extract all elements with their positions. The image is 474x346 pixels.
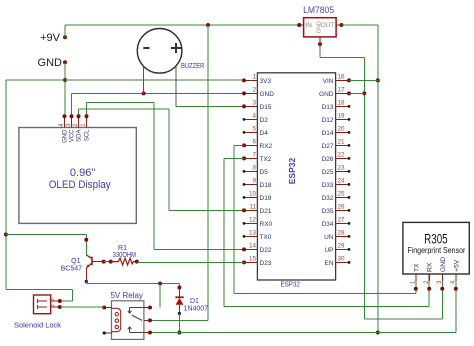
relay pin NC right top (144, 306, 152, 310)
ESP32 pin 18 D13 (322, 100, 351, 111)
wire 5V to R305 (455, 289, 457, 333)
R305 body (403, 222, 469, 274)
solenoid pin numbers (50, 298, 56, 307)
svg-text:+9V: +9V (40, 32, 61, 44)
wire SCL drop (153, 103, 155, 250)
ESP32 pin 2 GND (242, 87, 274, 98)
svg-text:12: 12 (249, 217, 257, 224)
svg-text:BUZZER: BUZZER (181, 63, 204, 70)
svg-text:VIN: VIN (323, 78, 334, 85)
wire R1 to D23 (137, 261, 244, 263)
svg-text:8: 8 (252, 165, 256, 172)
svg-text:30: 30 (338, 256, 346, 263)
svg-text:D32: D32 (322, 195, 334, 202)
transistor Q1 BC547 (86, 255, 104, 269)
wire buzzer to D15 (176, 105, 244, 107)
junction +9V/relay drop (206, 23, 210, 27)
ESP32 pin 23 D25 (322, 165, 351, 176)
svg-text:D12: D12 (322, 117, 334, 124)
wire 7805 gnd right (320, 57, 364, 59)
ESP32 pin 11 D21 (242, 204, 272, 215)
Q1 emitter end dot (85, 280, 88, 283)
svg-text:BC547: BC547 (61, 266, 83, 273)
LM7805 label (303, 5, 334, 16)
junction collector wire dot (84, 238, 88, 242)
wire GND left rail down (5, 80, 7, 290)
svg-text:19: 19 (338, 113, 346, 120)
svg-text:D21: D21 (260, 208, 272, 215)
wire SDA up (78, 109, 80, 116)
wire emitter down (85, 282, 87, 284)
Q1 emitter lead (85, 268, 87, 282)
svg-text:OUT: OUT (321, 22, 335, 29)
svg-text:RX2: RX2 (260, 143, 273, 150)
ESP32 pin 9 D18 (243, 178, 272, 189)
svg-text:Fingerprint Sensor: Fingerprint Sensor (407, 245, 465, 255)
relay pin coil left top (102, 306, 111, 310)
wire VCC row to ESP32 GND pin (72, 92, 245, 94)
ESP32 pin 4 D2 (243, 113, 269, 124)
svg-text:7: 7 (252, 152, 256, 159)
wire GND label to OLED pin4 (64, 62, 66, 116)
wire to solenoid pin2 (60, 300, 73, 302)
svg-text:D22: D22 (260, 247, 272, 254)
wire base to R1 (104, 261, 111, 263)
wire OUT right (342, 24, 378, 26)
wire gnd bottom row (364, 318, 442, 320)
wire +9V vertical drop (207, 25, 209, 320)
OLED pins GND VCC SDA SCL (59, 114, 91, 143)
ESP32 pin 8 D5 (243, 165, 269, 176)
junction VIN (376, 78, 380, 82)
svg-text:TX0: TX0 (260, 234, 272, 241)
svg-text:D4: D4 (260, 130, 269, 137)
ESP32 pin 22 D26 (322, 152, 351, 163)
LM7805 OUT pin (336, 23, 343, 27)
svg-text:SCL: SCL (85, 129, 91, 141)
svg-text:D34: D34 (322, 221, 334, 228)
wire gnd drop (363, 58, 365, 319)
transistor Q1 labels (61, 258, 83, 273)
ESP32 vertical label (287, 157, 297, 184)
R305 pins TX RX GND +5V (411, 257, 461, 291)
svg-text:13: 13 (249, 230, 257, 237)
svg-text:3: 3 (252, 100, 256, 107)
ESP32 pin 15 D23 (242, 256, 272, 267)
junction collector branch (4, 233, 8, 237)
wire +9V rail top (65, 24, 299, 26)
svg-text:1: 1 (252, 74, 256, 81)
svg-text:OLED Display: OLED Display (49, 179, 111, 191)
wire OUT drop (377, 25, 379, 333)
relay pin coil left bottom (103, 331, 112, 334)
solenoid pin2 dot (58, 299, 62, 303)
wire SCL to D22 (154, 248, 244, 250)
LM7805 GND pin (318, 37, 322, 46)
svg-text:15: 15 (249, 256, 257, 263)
svg-text:R1: R1 (118, 245, 127, 252)
resistor R1 330OHM (111, 258, 137, 265)
svg-text:D14: D14 (322, 130, 334, 137)
svg-text:27: 27 (338, 217, 346, 224)
svg-text:ESP32: ESP32 (287, 157, 297, 184)
svg-text:GND: GND (38, 57, 63, 69)
svg-text:GND: GND (319, 91, 334, 98)
svg-text:D25: D25 (322, 169, 334, 176)
svg-text:TX2: TX2 (260, 156, 272, 163)
svg-text:24: 24 (338, 178, 346, 185)
relay pin common right middle (144, 318, 152, 322)
wire RX2 row (234, 292, 416, 294)
wire to R305 RX (428, 289, 430, 307)
svg-text:23: 23 (338, 165, 346, 172)
svg-text:TX: TX (413, 263, 420, 272)
Q1 base pin dot (102, 260, 106, 264)
svg-text:ESP32: ESP32 (280, 282, 300, 289)
svg-text:21: 21 (338, 139, 346, 146)
svg-text:1N4007: 1N4007 (184, 306, 209, 313)
wire SDA to D21 (169, 209, 244, 211)
svg-text:2: 2 (50, 298, 56, 301)
svg-text:20: 20 (338, 126, 346, 133)
svg-text:28: 28 (338, 230, 346, 237)
wire 5V bottom rail (150, 332, 456, 334)
svg-text:D2: D2 (260, 117, 269, 124)
junction D1 rail (177, 331, 181, 335)
svg-text:11: 11 (249, 204, 256, 211)
wire VIN stub (349, 79, 378, 81)
wire 7805 gnd down (319, 44, 321, 57)
D1 bottom pin dot (178, 312, 181, 315)
svg-text:GND: GND (260, 91, 275, 98)
junction 5V rail (376, 331, 380, 335)
node GND label (38, 57, 63, 69)
svg-text:D5: D5 (260, 169, 269, 176)
svg-text:16: 16 (338, 74, 346, 81)
svg-text:3V3: 3V3 (260, 78, 272, 85)
ESP32 pin 6 RX2 (242, 139, 273, 150)
LM7805 OUT text (321, 22, 335, 29)
LM7805 IN text (306, 22, 313, 29)
wire SCL up (86, 103, 88, 117)
junction buzzer minus (142, 91, 146, 95)
svg-text:D33: D33 (322, 182, 334, 189)
relay K1 body (112, 301, 144, 340)
svg-text:4: 4 (252, 113, 256, 120)
diode D1 1N4007 (175, 288, 183, 314)
svg-text:Solenoid Lock: Solenoid Lock (14, 321, 61, 330)
svg-text:D18: D18 (260, 182, 272, 189)
buzzer BZ1 body (137, 29, 182, 74)
ESP32 pin 5 D4 (243, 126, 269, 137)
svg-text:UP: UP (324, 247, 333, 254)
svg-text:SDA: SDA (77, 130, 83, 142)
svg-text:2: 2 (252, 87, 256, 94)
svg-text:D13: D13 (322, 104, 334, 111)
wire collector drop (85, 235, 87, 255)
relay pin NO right bottom (144, 331, 152, 335)
ESP32 pin 25 D32 (322, 191, 351, 202)
node GND terminal dot (63, 60, 67, 64)
junction ESP32 GND17 (362, 91, 366, 95)
wire RX2 drop (233, 145, 235, 293)
ESP32 pin 24 D33 (322, 178, 351, 189)
ESP32 pin 20 D14 (322, 126, 351, 137)
svg-text:IN: IN (306, 22, 313, 29)
ESP32 U1 body (257, 73, 335, 280)
ESP32 pin 21 D27 (322, 139, 351, 150)
svg-text:10: 10 (249, 191, 257, 198)
ESP32 pin 16 VIN (323, 74, 351, 85)
svg-text:330OHM: 330OHM (113, 252, 136, 259)
solenoid pins (38, 299, 60, 309)
svg-text:25: 25 (338, 191, 346, 198)
ESP32 pin 7 TX2 (242, 152, 272, 163)
svg-text:VCC: VCC (70, 129, 76, 142)
wire relay feed drop (159, 284, 161, 308)
ESP32 pin 1 3V3 (242, 74, 271, 85)
ESP32 pin 27 D34 (322, 217, 351, 228)
wire TX2 drop (223, 158, 225, 306)
wire collector branch (6, 234, 86, 236)
OLED title (49, 167, 111, 191)
ESP32 pin 13 TX0 (243, 230, 272, 241)
svg-text:D1: D1 (190, 298, 199, 305)
svg-text:D27: D27 (322, 143, 334, 150)
svg-text:29: 29 (338, 243, 346, 250)
ESP32 pin 30 EN (324, 256, 350, 267)
svg-text:9: 9 (252, 178, 256, 185)
svg-text:D23: D23 (260, 260, 272, 267)
ESP32 pin 10 D19 (243, 191, 272, 202)
wire diode corner (178, 284, 180, 288)
wire GND17 stub (349, 92, 364, 94)
relay coil (111, 308, 120, 331)
solenoid label (14, 321, 61, 330)
wire solenoid riser (72, 290, 74, 302)
wire SDA drop (168, 109, 170, 211)
solenoid lock body (34, 295, 51, 314)
R1 right pin dot (135, 260, 139, 264)
wire gnd to R305 (441, 289, 443, 319)
svg-text:EN: EN (324, 260, 333, 267)
node +9V terminal dot (63, 35, 67, 39)
wire emitter row (86, 283, 179, 285)
svg-text:GND: GND (63, 129, 69, 143)
svg-text:0.96": 0.96" (70, 167, 95, 179)
R305 title (424, 231, 448, 247)
svg-text:D26: D26 (322, 156, 334, 163)
junction GND rail (63, 78, 67, 82)
LM7805 U3 body (304, 18, 337, 37)
junction diode top (177, 286, 181, 290)
svg-text:D15: D15 (260, 104, 272, 111)
svg-text:6: 6 (252, 139, 256, 146)
svg-text:26: 26 (338, 204, 346, 211)
wire TX2 left (224, 157, 244, 159)
ESP32 pin 29 UP (324, 243, 350, 254)
svg-text:GND: GND (316, 21, 322, 33)
junction relay feed (158, 282, 162, 286)
wire OLED VCC up (71, 93, 73, 116)
relay label (110, 291, 142, 300)
svg-text:5: 5 (252, 126, 256, 133)
wire +9V to relay common (150, 319, 208, 321)
R1 left pin dot (109, 260, 113, 264)
ESP32 pin 19 D12 (322, 113, 351, 124)
wire GND rail to ESP32 3V3 (6, 79, 244, 81)
buzzer label (181, 63, 204, 70)
svg-text:Q1: Q1 (71, 258, 80, 265)
wire SCL row (87, 102, 155, 104)
buzzer lead left (143, 67, 145, 94)
wire to R305 TX (415, 289, 417, 294)
solenoid pin1 dot (58, 305, 62, 309)
node +9V label (40, 32, 61, 44)
wire rail bottom to solenoid (6, 289, 73, 291)
buzzer lead right (175, 66, 177, 106)
OLED display body (19, 128, 136, 224)
ESP32 pin 28 UN (324, 230, 350, 241)
diode D1 labels (184, 298, 209, 313)
svg-text:22: 22 (338, 152, 346, 159)
svg-text:RX0: RX0 (260, 221, 273, 228)
wire TX2 row (224, 306, 429, 308)
svg-text:D19: D19 (260, 195, 272, 202)
svg-text:14: 14 (249, 243, 257, 250)
wire RX2 left (234, 144, 244, 146)
ESP32 pin 3 D15 (242, 100, 272, 111)
wire D1 to 5V rail (178, 314, 180, 333)
wire solenoid pin1 to relay (60, 306, 104, 308)
ESP32 pin 14 D22 (242, 243, 272, 254)
ESP32 pin 26 D35 (322, 204, 351, 215)
svg-text:RX: RX (427, 262, 434, 272)
ESP32 pin 17 GND (319, 87, 351, 98)
svg-text:5V Relay: 5V Relay (110, 291, 142, 300)
R305 subtitle (407, 245, 465, 255)
svg-text:17: 17 (338, 87, 346, 94)
svg-text:D35: D35 (322, 208, 334, 215)
svg-text:UN: UN (324, 234, 334, 241)
LM7805 IN pin (297, 23, 303, 27)
LM7805 GND text (316, 21, 322, 33)
wire SDA row (79, 108, 170, 110)
svg-text:GND: GND (440, 257, 447, 272)
ESP32 bottom label (280, 282, 300, 289)
resistor R1 labels (113, 245, 136, 259)
svg-text:+5V: +5V (453, 259, 460, 272)
ESP32 pin 12 RX0 (243, 217, 273, 228)
svg-text:1: 1 (50, 304, 56, 307)
wire +9V up (64, 25, 66, 37)
svg-text:LM7805: LM7805 (303, 5, 334, 16)
relay switch contacts (128, 308, 150, 333)
svg-text:18: 18 (338, 100, 346, 107)
